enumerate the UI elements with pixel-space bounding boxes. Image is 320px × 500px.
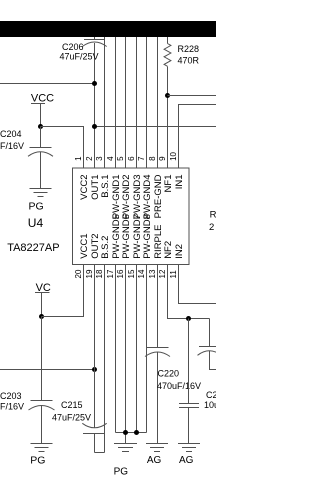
svg-text:15: 15 xyxy=(127,269,136,278)
ground AG under C219 xyxy=(178,444,200,452)
node OUT1 left junction xyxy=(92,81,97,86)
wire OUT2 tap to left edge xyxy=(0,369,95,371)
svg-text:18: 18 xyxy=(95,269,104,278)
wire pin7 top feed xyxy=(146,37,148,168)
svg-text:R2: R2 xyxy=(210,209,216,220)
svg-text:R228: R228 xyxy=(178,44,200,54)
svg-text:1: 1 xyxy=(74,156,83,161)
capacitor C215 xyxy=(82,423,106,452)
svg-text:TA8227AP: TA8227AP xyxy=(7,242,59,254)
svg-text:8: 8 xyxy=(148,156,157,161)
svg-text:VCC: VCC xyxy=(31,92,54,104)
capacitor C219 NF2 to AG xyxy=(179,319,199,444)
node VC net label xyxy=(35,282,51,294)
node NF2 junction xyxy=(186,316,191,321)
op-amp U4 IC body TA8227AP xyxy=(73,168,190,265)
svg-text:NF2: NF2 xyxy=(163,241,174,259)
node bus junction pin 16 xyxy=(123,430,128,435)
capacitor C203 xyxy=(29,317,55,444)
node VCC junction xyxy=(38,124,43,129)
svg-text:7: 7 xyxy=(137,156,146,161)
svg-text:AG: AG xyxy=(147,455,162,466)
svg-text:47uF/25V: 47uF/25V xyxy=(60,52,99,62)
svg-text:F/16V: F/16V xyxy=(0,141,24,151)
wire VC stub xyxy=(41,293,43,317)
svg-text:13: 13 xyxy=(148,269,157,278)
label C220 value xyxy=(157,369,201,391)
wire IN1 feed (pin 10) xyxy=(179,105,217,169)
svg-text:IN2: IN2 xyxy=(174,244,185,259)
svg-text:2: 2 xyxy=(85,156,94,161)
wire NF2 (pin 12) xyxy=(168,265,210,319)
label C203 value xyxy=(0,391,24,412)
svg-text:PG: PG xyxy=(30,455,45,467)
svg-text:PW-GND2: PW-GND2 xyxy=(121,175,132,220)
wire VCC stub xyxy=(40,104,42,127)
wire pin6 top feed xyxy=(136,37,138,168)
svg-text:470R: 470R xyxy=(178,56,200,66)
svg-text:4: 4 xyxy=(106,156,115,161)
power rail bar (cropped dark block at top) xyxy=(0,21,216,37)
svg-text:10uF/50V: 10uF/50V xyxy=(204,400,216,410)
svg-text:470uF/16V: 470uF/16V xyxy=(157,381,201,391)
label C204 value xyxy=(0,129,24,151)
wire pin 19 down xyxy=(94,265,96,428)
ground PG under C203 xyxy=(31,444,53,452)
ground PG power ground xyxy=(114,444,137,452)
svg-text:11: 11 xyxy=(169,270,178,279)
wire OUT1 tap to left edge xyxy=(0,83,95,85)
svg-text:C215: C215 xyxy=(61,400,83,410)
wire OUT1 tap to right edge xyxy=(95,126,217,128)
svg-text:C203: C203 xyxy=(0,391,22,401)
label C206 value xyxy=(60,42,99,62)
svg-text:9: 9 xyxy=(158,156,167,161)
label C215 value xyxy=(52,400,91,423)
svg-text:VCC1: VCC1 xyxy=(79,233,90,258)
capacitor C206 xyxy=(82,37,106,168)
svg-text:IN1: IN1 xyxy=(174,175,185,190)
svg-text:AG: AG xyxy=(179,455,194,466)
svg-text:14: 14 xyxy=(137,269,146,278)
node OUT2 junction xyxy=(92,367,97,372)
svg-text:2: 2 xyxy=(209,222,214,233)
svg-text:6: 6 xyxy=(127,156,136,161)
svg-text:16: 16 xyxy=(116,269,125,278)
wire VC to pin 20 xyxy=(42,265,84,317)
wire VCC to pin 1 xyxy=(41,127,84,169)
svg-text:F/16V: F/16V xyxy=(0,402,24,412)
svg-text:B.S.1: B.S.1 xyxy=(100,175,111,198)
wire pin8 top feed xyxy=(157,37,159,168)
svg-text:3: 3 xyxy=(95,156,104,161)
svg-text:20: 20 xyxy=(74,269,83,278)
svg-text:19: 19 xyxy=(85,269,94,278)
capacitor C220 xyxy=(145,265,170,444)
wire pin4 top feed xyxy=(115,37,117,168)
svg-text:C220: C220 xyxy=(158,369,180,379)
wire pin 18 down xyxy=(104,265,106,453)
svg-text:47uF/25V: 47uF/25V xyxy=(52,413,91,423)
svg-text:C204: C204 xyxy=(0,129,22,139)
svg-text:NF1: NF1 xyxy=(163,175,174,193)
wire NF1 tap to right edge xyxy=(168,95,217,97)
svg-text:PG: PG xyxy=(29,201,44,213)
wire IN2 (pin 11) to right edge xyxy=(179,265,217,304)
label C221 value xyxy=(204,390,243,410)
svg-text:12: 12 xyxy=(158,269,167,278)
svg-text:C206: C206 xyxy=(62,42,84,52)
node OUT1 right junction xyxy=(92,124,97,129)
label R228 value xyxy=(178,44,200,66)
wire pin5 top feed xyxy=(125,37,127,168)
svg-text:10: 10 xyxy=(169,151,178,160)
node bus junction pin 15 xyxy=(134,430,139,435)
ground AG under C220 xyxy=(146,444,168,452)
svg-text:PW-GND6: PW-GND6 xyxy=(121,214,132,259)
svg-text:PG: PG xyxy=(114,467,129,478)
svg-text:B.S.2: B.S.2 xyxy=(100,236,111,259)
capacitor C204 xyxy=(28,127,53,189)
capacitor C221 right edge xyxy=(198,319,222,370)
svg-text:C221: C221 xyxy=(206,390,216,400)
node VC junction xyxy=(39,314,44,319)
wire pin3 top feed xyxy=(104,37,106,168)
resistor R228 xyxy=(164,37,171,168)
ground PG under C204 xyxy=(30,189,52,197)
svg-text:VCC2: VCC2 xyxy=(79,175,90,200)
svg-text:PW-GND8: PW-GND8 xyxy=(142,214,153,259)
wire PW-GND bus xyxy=(116,265,147,444)
node NF1 junction xyxy=(165,93,170,98)
svg-text:17: 17 xyxy=(106,269,115,278)
svg-text:U4: U4 xyxy=(28,216,44,230)
node VCC net label xyxy=(31,92,54,104)
svg-text:PW-GND4: PW-GND4 xyxy=(142,175,153,220)
svg-text:5: 5 xyxy=(116,156,125,161)
